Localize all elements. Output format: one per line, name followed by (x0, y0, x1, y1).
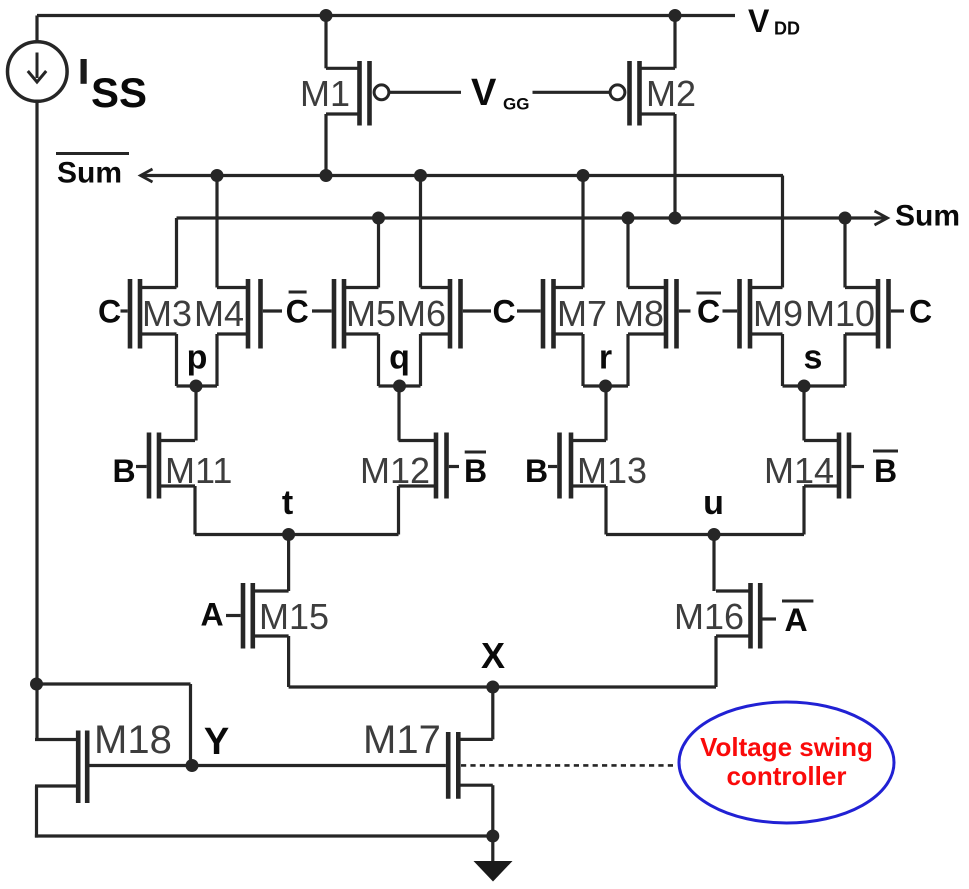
wire VDD rail (37, 14, 735, 17)
junction M2 source / Sum (669, 212, 682, 225)
node p (177, 386, 218, 441)
transistor M11 (149, 433, 195, 535)
svg-text:u: u (703, 484, 724, 522)
label ISS (81, 59, 148, 116)
svg-text:M11: M11 (165, 450, 232, 491)
svg-text:C: C (286, 294, 309, 330)
label q (389, 339, 410, 377)
label M8 (614, 293, 664, 334)
label M10 (805, 293, 875, 334)
label A (M15 gate) (200, 597, 240, 633)
svg-text:V: V (748, 3, 770, 39)
label Sum-bar (56, 154, 129, 190)
label Sum (895, 200, 960, 233)
label M9 (753, 293, 803, 334)
svg-text:M15: M15 (259, 596, 329, 637)
svg-text:M8: M8 (614, 293, 664, 334)
transistor M6 (421, 176, 461, 387)
label A-bar (M16 gate) (763, 601, 814, 638)
wire Sum-bar right drop to M9 (781, 176, 784, 288)
svg-text:Y: Y (204, 721, 229, 763)
label M2 (646, 73, 696, 114)
label M1 (300, 73, 350, 114)
svg-text:C: C (98, 294, 121, 330)
transistor M2 (610, 16, 675, 219)
transistor M15 (243, 583, 289, 687)
transistor M10 (845, 218, 889, 386)
junction node t (282, 528, 295, 541)
svg-text:M17: M17 (363, 718, 441, 762)
junction M5 / Sum (372, 212, 385, 225)
transistor M12 (399, 433, 447, 535)
junction node u (708, 528, 721, 541)
svg-text:M2: M2 (646, 73, 696, 114)
svg-text:t: t (282, 484, 293, 522)
svg-text:p: p (187, 339, 208, 377)
label M16 (674, 596, 744, 637)
svg-text:M6: M6 (396, 293, 446, 334)
svg-text:M4: M4 (194, 293, 244, 334)
svg-text:Sum: Sum (57, 157, 122, 190)
svg-text:r: r (599, 339, 612, 377)
junction ground (486, 830, 499, 843)
svg-text:C: C (492, 294, 515, 330)
svg-text:A: A (200, 597, 223, 633)
transistor M8 (628, 218, 677, 386)
junction node s (798, 380, 811, 393)
label B (M11 gate) (112, 453, 146, 489)
label r (599, 339, 612, 377)
label C (M10 gate) (891, 294, 932, 330)
node q (379, 386, 421, 441)
label VGG (471, 72, 529, 114)
junction M10 / Sum (839, 212, 852, 225)
wire Sum-bar rail (141, 169, 784, 182)
label X (481, 635, 505, 676)
label C (M6/M7 gates) (463, 294, 541, 330)
wire ground rail (35, 834, 493, 837)
label M17 (363, 718, 441, 762)
transistor M5 (334, 218, 379, 386)
transistor M1 (326, 16, 389, 176)
wire Sum rail (177, 211, 888, 225)
node t (195, 535, 399, 592)
transistor M14 (804, 433, 849, 535)
label M13 (577, 450, 647, 491)
svg-text:Voltage swing: Voltage swing (700, 732, 873, 762)
label C-bar (M4/M5 gates) (263, 292, 332, 330)
svg-text:M1: M1 (300, 73, 350, 114)
junction node r (599, 380, 612, 393)
label M12 (360, 450, 430, 491)
junction VDD / M1 drain (320, 9, 333, 22)
junction M4 / Sum-bar (211, 169, 224, 182)
svg-text:B: B (874, 453, 897, 489)
node r (583, 386, 628, 441)
svg-text:controller: controller (727, 761, 847, 791)
svg-text:M14: M14 (764, 450, 834, 491)
label M7 (557, 293, 607, 334)
label s (804, 339, 823, 377)
current source ISS (8, 16, 68, 102)
label C-bar (M8/M9 gates) (679, 293, 737, 330)
label u (703, 484, 724, 522)
svg-text:s: s (804, 339, 823, 377)
svg-text:q: q (389, 339, 410, 377)
label M5 (346, 293, 396, 334)
label VDD (748, 3, 800, 39)
node s (783, 386, 846, 441)
label B-bar (M14 gate) (851, 451, 898, 489)
node Y wire (89, 764, 446, 767)
svg-text:B: B (464, 453, 487, 489)
transistor M18 (35, 731, 87, 838)
node X (289, 687, 716, 739)
svg-text:V: V (471, 72, 497, 114)
transistor M7 (543, 176, 583, 387)
svg-text:C: C (697, 294, 720, 330)
svg-text:Sum: Sum (895, 200, 960, 233)
wire M1 gate to VGG (389, 91, 461, 94)
label p (187, 339, 208, 377)
junction VDD / M2 drain (669, 9, 682, 22)
node u (606, 535, 804, 592)
svg-text:SS: SS (91, 69, 147, 116)
transistor M4 (217, 176, 261, 387)
label M6 (396, 293, 446, 334)
svg-text:X: X (481, 635, 505, 676)
transistor M17 (448, 732, 493, 836)
svg-text:M16: M16 (674, 596, 744, 637)
label M18 (94, 718, 172, 762)
svg-text:M18: M18 (94, 718, 172, 762)
transistor M13 (560, 433, 607, 535)
wire Sum left drop to M3 (175, 218, 178, 288)
junction M6 / Sum-bar (414, 169, 427, 182)
junction M1 / Sum-bar (320, 169, 333, 182)
wire ISS vertical (35, 101, 38, 740)
svg-text:M12: M12 (360, 450, 430, 491)
svg-text:M5: M5 (346, 293, 396, 334)
svg-text:M3: M3 (142, 293, 192, 334)
label B (M13 gate) (525, 453, 557, 489)
transistor M9 (740, 279, 783, 386)
junction ISS / Y branch (30, 678, 43, 691)
junction M7 / Sum-bar (577, 169, 590, 182)
voltage swing controller (679, 702, 894, 823)
svg-text:M10: M10 (805, 293, 875, 334)
label M4 (194, 293, 244, 334)
junction node X (486, 681, 499, 694)
wire VGG to M2 gate (533, 91, 610, 94)
svg-text:A: A (784, 602, 807, 638)
junction node Y (186, 759, 199, 772)
junction node q (393, 380, 406, 393)
label Y (204, 721, 229, 763)
svg-text:C: C (909, 294, 932, 330)
svg-text:B: B (112, 453, 135, 489)
transistor M16 (716, 583, 760, 687)
ground (474, 836, 513, 882)
control line (dashed) M17 gate (461, 764, 677, 767)
label t (282, 484, 293, 522)
label M14 (764, 450, 834, 491)
label M11 (165, 450, 232, 491)
junction M8 / Sum (622, 212, 635, 225)
label M3 (142, 293, 192, 334)
label B-bar (M12 gate) (449, 452, 487, 489)
transistor M3 (130, 279, 177, 386)
svg-text:M13: M13 (577, 450, 647, 491)
svg-text:DD: DD (774, 19, 800, 39)
junction node p (190, 380, 203, 393)
label C (M3 gate) (98, 294, 128, 330)
svg-text:M9: M9 (753, 293, 803, 334)
svg-text:B: B (525, 453, 548, 489)
svg-text:M7: M7 (557, 293, 607, 334)
svg-text:GG: GG (503, 95, 529, 114)
wire ISS to node Y (37, 684, 191, 766)
label M15 (259, 596, 329, 637)
